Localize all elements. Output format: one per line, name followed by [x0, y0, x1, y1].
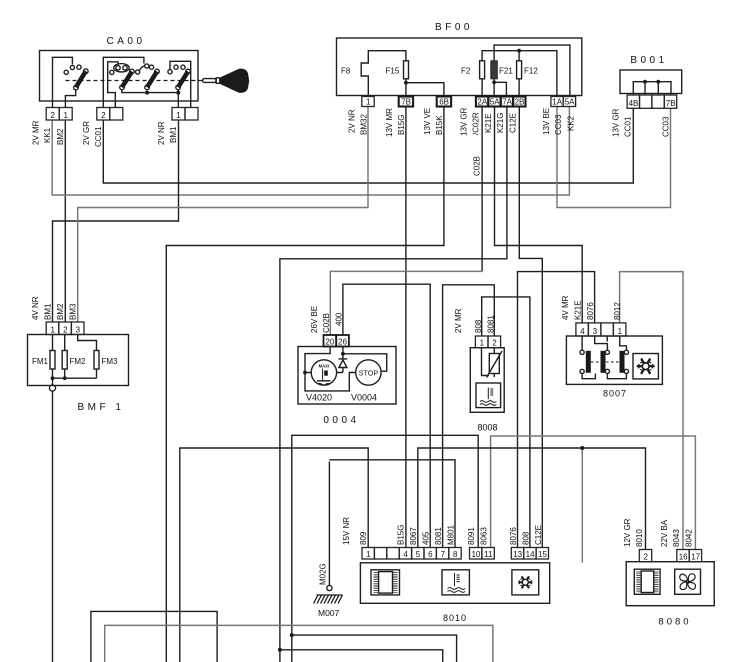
svg-text:BM3: BM3: [69, 303, 78, 320]
svg-text:13V BE: 13V BE: [542, 108, 551, 135]
svg-text:KK2: KK2: [567, 115, 576, 131]
8007 blank pin: [601, 323, 614, 336]
8080 pin 17 (8042): [689, 550, 701, 562]
BF00 pin 1 (BM32): [362, 97, 374, 107]
wire B15G : BF00 pin7B to 8010 pin4: [405, 107, 407, 548]
svg-text:2: 2: [492, 339, 497, 348]
svg-text:4V MR: 4V MR: [561, 295, 570, 320]
svg-text:12V GR: 12V GR: [623, 518, 632, 547]
8007 contact element 3: [607, 336, 626, 350]
wire 8063/8042 : 8010 pin11 to 8080 pin17: [491, 436, 696, 550]
svg-text:KK1: KK1: [43, 127, 52, 143]
svg-text:13: 13: [513, 550, 522, 559]
B001 blank pins: [640, 95, 652, 108]
B001 pin 7B: [664, 95, 676, 108]
svg-text:2: 2: [50, 111, 55, 120]
wire battery feed from BMF1 node to bottom edge: [52, 391, 54, 662]
svg-text:C12E: C12E: [534, 525, 543, 545]
wire 809 : bottom edge to 8010 pin1: [180, 448, 368, 662]
CA00 S2 contact circles: [110, 70, 114, 74]
svg-text:4V NR: 4V NR: [31, 296, 40, 320]
svg-text:M801: M801: [447, 524, 456, 545]
wire stub at junction to 8010 case: [581, 448, 583, 563]
0004 pin 26 (400): [336, 335, 349, 347]
svg-text:BM32: BM32: [360, 114, 369, 135]
wire 8067/8010 : 8010 pin5 to 8080 pin2: [418, 448, 646, 550]
svg-text:8080: 8080: [658, 617, 691, 628]
CA00 pin 2 (CC01): [97, 108, 110, 121]
svg-text:FM1: FM1: [32, 357, 49, 366]
svg-text:K21G: K21G: [496, 113, 505, 133]
svg-text:B15G: B15G: [397, 115, 406, 135]
wire KK1/KK2 : CA00 pin2 to BF00 pin5A: [52, 107, 569, 196]
svg-text:8: 8: [453, 550, 458, 559]
svg-text:CA00: CA00: [106, 36, 145, 47]
BF00 pin 1A (CC03): [551, 97, 563, 107]
svg-text:CC03: CC03: [554, 114, 563, 135]
0004 internal wiring: [305, 347, 330, 373]
svg-text:F8: F8: [341, 67, 351, 76]
BF00 pin 2B (C12E): [513, 97, 525, 107]
svg-text:809: 809: [359, 531, 368, 545]
wire C02B : BF00 pin2A to 0004 pin20: [481, 107, 483, 272]
8007 snowflake icon: [633, 354, 658, 379]
svg-text:4B: 4B: [629, 99, 639, 108]
CA00 switch S2 lever: [122, 72, 132, 88]
svg-text:F2: F2: [461, 67, 471, 76]
wire BM1 : CA00 pin1 to BMF1 pin1: [53, 120, 179, 322]
8010 microprocessor icon: [371, 570, 400, 595]
svg-text:4: 4: [580, 327, 585, 336]
svg-text:16: 16: [679, 553, 688, 562]
8007 contact element 2: [595, 336, 627, 379]
wire B15K : BF00 pin6B down-left to bottom edge: [166, 107, 444, 662]
svg-text:8063: 8063: [480, 527, 489, 545]
diode in 0004: [337, 359, 348, 373]
svg-text:6: 6: [428, 550, 433, 559]
svg-text:13V GR: 13V GR: [460, 107, 469, 136]
svg-text:0004: 0004: [323, 415, 359, 426]
svg-text:1: 1: [50, 325, 55, 334]
8080 pin 16 (8043): [677, 550, 689, 562]
BMF1 bus bar: [53, 377, 97, 379]
svg-text:2A: 2A: [477, 97, 487, 106]
8010 pin 14: [524, 548, 536, 560]
svg-text:8012: 8012: [613, 302, 622, 320]
svg-text:5: 5: [416, 550, 421, 559]
8080 microprocessor icon: [634, 569, 660, 594]
8007 pin 1 (8012): [613, 323, 626, 336]
svg-text:C12E: C12E: [509, 113, 518, 133]
svg-text:7: 7: [441, 550, 446, 559]
svg-text:2V MR: 2V MR: [32, 120, 41, 145]
8010 pin 11: [482, 548, 494, 560]
svg-text:2V GR: 2V GR: [82, 121, 91, 145]
B001 pin 4B: [627, 95, 639, 108]
wire BM2 : CA00 pin1 to BMF1 pin2: [64, 120, 66, 322]
BF00 pin 7A (K21G): [501, 97, 513, 107]
svg-text:405: 405: [422, 531, 431, 545]
svg-text:11: 11: [484, 550, 493, 559]
svg-text:3: 3: [593, 327, 598, 336]
dashed mechanical link line: [66, 80, 203, 82]
svg-text:26: 26: [338, 337, 347, 346]
CA00 blank pin: [110, 108, 123, 121]
wire BM32/BM3 : BF00 pin1 to BMF1 pin3: [78, 107, 368, 323]
svg-text:1: 1: [618, 327, 623, 336]
svg-text:1A: 1A: [552, 97, 562, 106]
svg-text:7A: 7A: [502, 97, 512, 106]
svg-text:BMF 1: BMF 1: [78, 402, 125, 413]
svg-text:17: 17: [691, 553, 700, 562]
svg-text:V4020: V4020: [306, 393, 332, 403]
wire loop at bottom (dark): [91, 611, 217, 662]
BF00 pin 2A (C02B/C02R): [476, 97, 488, 107]
wire CC01 : CA00 pin2 to B001 pin4B: [103, 108, 633, 183]
svg-text:20: 20: [325, 337, 334, 346]
BMF1 output node (open circle): [52, 378, 54, 385]
8008 pin 1 (808): [475, 336, 488, 348]
svg-text:2B: 2B: [515, 97, 525, 106]
8010 coolant temp icon: [442, 570, 469, 595]
svg-text:400: 400: [335, 312, 344, 326]
svg-text:2V NR: 2V NR: [157, 121, 166, 145]
svg-text:808: 808: [521, 531, 530, 545]
8010 pin blank: [374, 548, 386, 560]
svg-text:BM1: BM1: [44, 303, 53, 320]
wire K21G bottom branch: [280, 650, 443, 662]
8008 thermistor symbol: [489, 354, 499, 374]
CA00 switch S3 curved contact: [139, 66, 145, 72]
svg-text:8067: 8067: [409, 527, 418, 545]
BMF1 pin 3 (BM3): [71, 322, 84, 335]
CA00 switch S2 wiring to pin 2(CC01) and blank pin: [103, 57, 144, 107]
svg-text:2: 2: [643, 553, 648, 562]
CA00 switch S3 lever: [147, 72, 157, 88]
wire K21G : BF00 pin7A down-left to bottom edge: [280, 107, 507, 662]
wire 8091 bottom branch: [292, 635, 457, 662]
warning lamp V0004 (STOP): [356, 360, 381, 385]
8080 fan icon: [675, 569, 701, 594]
svg-text:26V BE: 26V BE: [310, 306, 319, 333]
wire 8081 : 8008 pin2 to 8010 pin7: [443, 285, 495, 548]
CA00 pin 1 (BM2): [59, 108, 72, 121]
ignition key symbol: [203, 69, 250, 93]
wire CC03 : BF00 pin1A to B001 pin7B: [557, 107, 671, 208]
CA00 switch S4 wiring to pin 1(BM1) and blank pin: [170, 61, 191, 107]
svg-text:FM2: FM2: [70, 357, 87, 366]
svg-text:CC01: CC01: [94, 126, 103, 147]
BF00 pin 7B (B15G): [399, 97, 413, 107]
ground M02G / M007: [328, 462, 330, 586]
wire 8091 : bottom edge to 8010 pin10: [292, 435, 478, 662]
svg-text:B001: B001: [630, 55, 667, 66]
svg-text:1: 1: [366, 97, 371, 106]
svg-text:F15: F15: [386, 67, 400, 76]
svg-text:1: 1: [366, 550, 371, 559]
CA00 pin 1 (BM1): [172, 108, 185, 121]
svg-text:1: 1: [63, 111, 68, 120]
svg-text:B15G: B15G: [397, 525, 406, 545]
svg-text:K21E: K21E: [484, 113, 493, 133]
svg-text:10: 10: [471, 550, 480, 559]
svg-text:2: 2: [63, 325, 68, 334]
BMF1 pin 1 (BM1): [46, 322, 59, 335]
svg-text:4: 4: [403, 550, 408, 559]
svg-text:8008: 8008: [477, 423, 497, 433]
svg-text:M02G: M02G: [319, 563, 328, 585]
svg-text:13V MR: 13V MR: [385, 108, 394, 137]
8010 pin 10: [470, 548, 482, 560]
BMF1 pin 2 (BM2): [59, 322, 72, 335]
CA00 S2 oval contact symbol: [114, 64, 130, 72]
svg-text:2V NR: 2V NR: [348, 109, 357, 133]
svg-text:CC01: CC01: [624, 116, 633, 137]
svg-text:7B: 7B: [401, 97, 411, 106]
CA00 S4 contact circles: [168, 70, 172, 74]
8007 dashed mechanical link: [591, 361, 619, 363]
svg-text:STOP: STOP: [359, 369, 379, 378]
svg-text:1: 1: [480, 339, 485, 348]
wire C12E : BF00 pin2B to 8010 pin15: [519, 107, 542, 548]
8010 pin 6: [424, 548, 436, 560]
CA00 blank pin: [185, 108, 198, 121]
svg-text:14: 14: [526, 550, 535, 559]
8010 pin 4: [399, 548, 411, 560]
svg-text:2: 2: [101, 111, 106, 120]
svg-text:MAXI: MAXI: [319, 364, 329, 369]
wire 8076 : 8007 pin3 to 8010 pin13: [518, 272, 595, 548]
svg-text:8091: 8091: [467, 527, 476, 545]
svg-text:BM1: BM1: [169, 126, 178, 143]
svg-text:BM2: BM2: [56, 303, 65, 320]
svg-text:F21: F21: [499, 67, 513, 76]
CA00 switch S1 wiring to pins 2(KK1),1(BM2): [53, 57, 73, 107]
wire 808 : 8008 pin1 to 8010 pin14: [482, 297, 530, 548]
svg-text:8081: 8081: [487, 315, 496, 333]
svg-text:8042: 8042: [685, 529, 694, 547]
8007 pin 3 (8076): [588, 323, 601, 336]
wire K21E : BF00 pin5A to 8007 pin4: [495, 107, 583, 323]
svg-text:8007: 8007: [603, 389, 627, 399]
svg-text:13V VE: 13V VE: [423, 108, 432, 135]
CA00 switch S1 contacts: [64, 70, 68, 74]
svg-text:15V NR: 15V NR: [342, 517, 351, 545]
svg-text:M007: M007: [318, 608, 340, 618]
8010 pin blank: [387, 548, 399, 560]
svg-text:8076: 8076: [586, 302, 595, 320]
wire loop at bottom (grey): [105, 625, 493, 662]
svg-text:22V BA: 22V BA: [660, 519, 669, 547]
svg-text:FM3: FM3: [102, 357, 119, 366]
svg-text:K21E: K21E: [574, 300, 583, 320]
svg-text:F12: F12: [524, 67, 538, 76]
svg-text:7B: 7B: [666, 99, 676, 108]
8008 coolant icon: [476, 383, 501, 408]
svg-text:15: 15: [538, 550, 547, 559]
8010 pin 15: [536, 548, 548, 560]
8010 pin 5: [412, 548, 424, 560]
svg-text:8010: 8010: [443, 613, 467, 623]
0004 pin 20 (C02B): [324, 335, 337, 347]
8080 pin 2 (8010): [639, 550, 651, 562]
8008 pin 2 (8081): [488, 336, 501, 348]
svg-text:V0004: V0004: [351, 393, 377, 403]
8010 pin 8: [449, 548, 461, 560]
8010 pin 1: [362, 548, 374, 560]
svg-text:8043: 8043: [672, 529, 681, 547]
svg-text:C02B: C02B: [473, 156, 482, 176]
B001 internal bus: [633, 82, 671, 95]
svg-text:CC03: CC03: [661, 116, 670, 137]
8010 pin 13: [511, 548, 523, 560]
svg-text:/C02R: /C02R: [472, 112, 481, 135]
svg-text:1: 1: [176, 111, 181, 120]
warning gauge V4020: [311, 360, 336, 385]
svg-text:13V GR: 13V GR: [612, 108, 621, 137]
BF00 pin 6B (B15K): [437, 97, 451, 107]
svg-text:BM2: BM2: [56, 128, 65, 145]
svg-text:8076: 8076: [509, 527, 518, 545]
8010 pin 7: [436, 548, 448, 560]
BF00 pin 5A (KK2): [563, 97, 575, 107]
svg-text:5A: 5A: [565, 97, 575, 106]
8010 A/C snowflake icon: [512, 570, 539, 595]
svg-text:C02B: C02B: [322, 313, 331, 333]
svg-text:5A: 5A: [490, 97, 500, 106]
wire 400/405 : 0004 pin26 to 8010 pin6: [343, 284, 430, 547]
8007 pin 4 (K21E): [576, 323, 589, 336]
CA00 switch S1 lever: [76, 71, 86, 87]
8007 contact element 1: [582, 336, 595, 379]
BF00 pin 5A (K21E): [488, 97, 500, 107]
CA00 switch S4 lever: [178, 72, 188, 88]
wire 8012/8043 : 8007 pin1 to 8080 pin16: [620, 272, 683, 550]
svg-text:3: 3: [76, 325, 81, 334]
svg-text:2V MR: 2V MR: [454, 308, 463, 333]
svg-text:B15K: B15K: [435, 115, 444, 135]
CA00 pin 2 (KK1): [46, 108, 59, 121]
svg-text:6B: 6B: [439, 97, 449, 106]
svg-text:8010: 8010: [635, 529, 644, 547]
connector CA00 (ignition switch): [40, 36, 199, 101]
svg-text:808: 808: [474, 319, 483, 333]
svg-text:BF00: BF00: [435, 22, 473, 33]
svg-text:8081: 8081: [434, 527, 443, 545]
wire M801 : ground M02G to 8010 pin8: [329, 460, 455, 548]
